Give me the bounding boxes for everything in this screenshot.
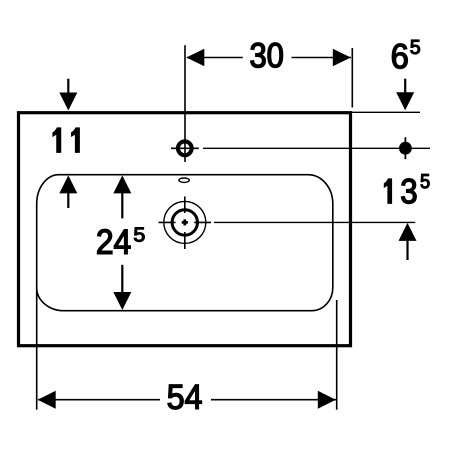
dimension text 30 [251,43,283,68]
basin inner bowl outline [37,175,333,311]
arrow for 6.5 dimension [396,79,414,111]
dimension line 54 [38,391,336,409]
faucet hole crosshair horizontal [171,147,199,149]
washbasin outer rim [19,113,351,346]
extension line for 30 dimension right [351,48,353,108]
dimension text 6 superscript 5 [392,40,419,68]
arrow 11 upper (points down to rim top) [59,79,77,111]
faucet hole centerline [184,45,186,162]
dimension text 11 [53,128,79,152]
drain center mark [182,219,188,225]
faucet hole [178,141,192,155]
dimension text 54 [168,385,201,409]
drain outer circle [164,201,206,243]
overflow slot [179,178,189,182]
drain centerline extension right [214,221,415,223]
dimension line 30 [186,49,351,67]
arrow for 13.5 dimension [399,223,417,260]
dimension dot terminator [399,137,412,159]
extension line for 54 left [36,288,38,410]
dimension text 24 superscript 5 [97,228,144,254]
dimension text 13 superscript 5 [384,174,429,203]
arrow 11 lower (points up to bowl top) [59,175,77,208]
drain crosshair vertical bottom arm [184,232,186,249]
arrow 24.5 lower (points down to bowl bottom) [113,265,131,310]
drain crosshair vertical top arm [184,197,186,214]
faucet centerline extension right [203,147,430,149]
drain crosshair horizontal right arm [194,221,211,223]
drain inner circle [172,210,197,235]
drain crosshair horizontal left arm [159,221,176,223]
top edge extension line right [352,111,420,113]
extension line for 54 right [336,300,338,410]
arrow 24.5 upper (points up to bowl top) [113,175,131,218]
